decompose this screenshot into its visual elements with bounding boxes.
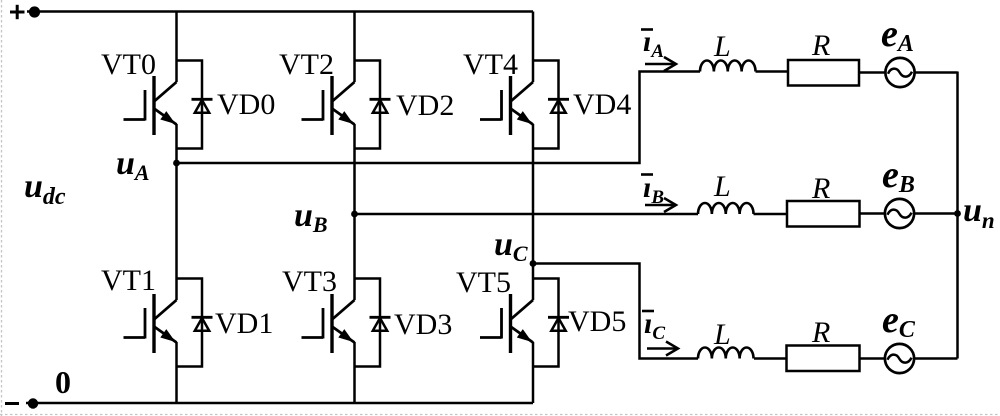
AC source e_B [885, 199, 914, 228]
diode VD1 with connecting loop [177, 279, 213, 367]
wire: phase B output [355, 213, 699, 216]
svg-text:R: R [811, 29, 830, 62]
wire: top DC+ rail [27, 10, 533, 13]
junction dot u_n [954, 210, 961, 217]
diode VD5 with connecting loop [533, 279, 569, 367]
svg-text:L: L [713, 170, 731, 203]
wire: source A to right bus [915, 71, 958, 74]
diode VD4 with connecting loop [533, 61, 569, 149]
wire: leg A upper segment [175, 12, 178, 83]
wire: source B to node u_n [914, 212, 957, 215]
transistor VT1 [124, 294, 177, 353]
svg-text:VT0: VT0 [101, 48, 156, 81]
wire: leg B middle segment [353, 124, 356, 300]
wire: resistor to source C [860, 357, 885, 360]
wire: coil to resistor C [754, 357, 787, 360]
AC source e_C [885, 344, 914, 373]
resistor R phase C [787, 346, 860, 372]
svg-text:VT1: VT1 [101, 264, 156, 297]
plus terminal of DC bus [10, 5, 25, 19]
svg-text:VT3: VT3 [282, 265, 337, 298]
wire: leg C lower segment [532, 342, 535, 403]
faint left scan border [1, 0, 3, 416]
wire: phase A output from leg A to jog [177, 72, 701, 164]
current arrow i_A [645, 63, 674, 66]
svg-text:VD2: VD2 [396, 89, 454, 122]
wire: resistor to source A [859, 71, 885, 74]
current arrow i_B [645, 204, 674, 207]
wire: phase C output from leg C to jog [533, 264, 698, 359]
junction dot phase B tap [351, 211, 358, 218]
svg-text:VT2: VT2 [279, 48, 334, 81]
diode VD0 with connecting loop [177, 61, 213, 149]
transistor VT0 [124, 76, 177, 135]
inductor L phase A [700, 60, 756, 71]
svg-text:VD3: VD3 [394, 308, 452, 341]
wire: right bus joining phases at u_n [956, 72, 959, 359]
transistor VT2 [302, 76, 355, 135]
wire: coil to resistor A [756, 70, 789, 73]
wire: leg B upper segment [353, 12, 356, 83]
transistor VT3 [302, 294, 355, 353]
svg-text:R: R [811, 316, 830, 349]
wire: leg A middle segment [175, 124, 178, 300]
svg-text:VT4: VT4 [463, 48, 518, 81]
inductor L phase C [698, 347, 754, 358]
faint bottom scan border [0, 414, 1000, 416]
wire: leg B lower segment [353, 342, 356, 403]
svg-text:L: L [713, 318, 731, 351]
junction dot on 0 rail [28, 398, 38, 408]
diode VD2 with connecting loop [355, 61, 391, 149]
wire: leg C upper segment [532, 12, 535, 83]
junction dot phase C tap [530, 260, 537, 267]
svg-text:L: L [713, 30, 731, 63]
wire: leg A lower segment [175, 342, 178, 403]
svg-text:VD5: VD5 [568, 305, 626, 338]
minus terminal of DC bus [5, 402, 19, 405]
resistor R phase B [787, 201, 860, 227]
svg-text:VD0: VD0 [217, 88, 275, 121]
AC source e_A [885, 58, 914, 87]
junction dot on + rail [29, 6, 40, 17]
svg-text:0: 0 [55, 364, 71, 400]
junction dot phase A tap [173, 160, 180, 167]
diode VD3 with connecting loop [355, 279, 391, 367]
svg-text:VT5: VT5 [456, 266, 511, 299]
inductor L phase B [698, 203, 754, 214]
transistor VT4 [480, 76, 533, 135]
svg-text:VD4: VD4 [573, 88, 631, 121]
wire: bottom 0 rail [26, 402, 533, 405]
wire: resistor to source B [860, 212, 885, 215]
current arrow i_C [647, 347, 676, 350]
wire: coil to resistor B [754, 213, 788, 216]
resistor R phase A [788, 60, 859, 86]
transistor VT5 [480, 294, 533, 353]
svg-text:R: R [811, 172, 830, 205]
wire: source C to right bus [914, 357, 957, 360]
svg-text:VD1: VD1 [215, 307, 273, 340]
wire: leg C middle segment [532, 124, 535, 300]
